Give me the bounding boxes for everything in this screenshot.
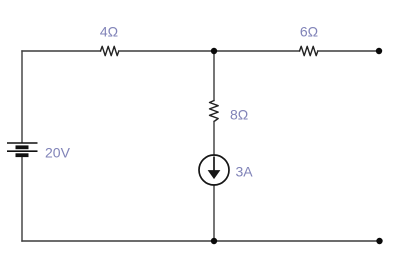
svg-text:20V: 20V xyxy=(45,145,71,161)
svg-text:4Ω: 4Ω xyxy=(100,24,118,40)
resistor R3 8ohm zigzag xyxy=(210,101,219,122)
wire middle segment between resistor and source xyxy=(213,122,215,156)
svg-text:6Ω: 6Ω xyxy=(300,24,318,40)
current source I1 circle xyxy=(199,155,229,185)
node dot top-right xyxy=(376,48,382,54)
resistor R2 6ohm zigzag xyxy=(300,46,318,55)
node dot bottom-right xyxy=(376,238,382,244)
wire top-middle horizontal segment xyxy=(119,50,300,52)
wire middle vertical lower segment xyxy=(213,185,215,241)
wire bottom horizontal segment xyxy=(22,240,380,242)
svg-text:3A: 3A xyxy=(236,164,254,180)
current source I1 arrow xyxy=(209,157,220,179)
battery V1 20V plates xyxy=(7,143,38,155)
svg-text:8Ω: 8Ω xyxy=(230,107,248,123)
wire left vertical upper segment xyxy=(21,51,23,143)
node dot bottom-middle xyxy=(211,238,217,244)
wire top-left horizontal segment xyxy=(22,50,101,52)
wire middle vertical upper segment xyxy=(213,51,215,101)
resistor R1 4ohm zigzag xyxy=(101,46,119,55)
wire top-right horizontal segment xyxy=(318,50,379,52)
node dot top-middle xyxy=(211,48,217,54)
wire left vertical lower segment xyxy=(21,156,23,242)
